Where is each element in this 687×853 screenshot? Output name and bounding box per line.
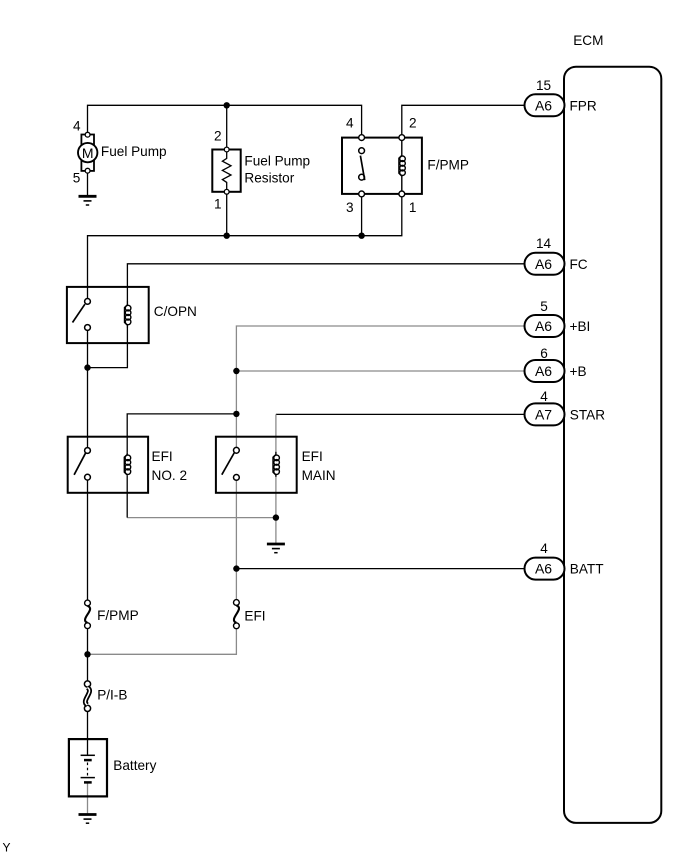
svg-text:M: M [82,145,94,161]
wire F/PMP relay pin3 branch down to mid net [361,194,363,236]
relay EFI NO.2 [68,437,148,493]
node junction dot below F/PMP fuse [84,651,90,657]
svg-text:A7: A7 [535,407,552,423]
wire +BI net gray: ECM A6-5 left then down to EFI MAIN switch top [236,326,524,450]
svg-text:BATT: BATT [570,562,604,577]
wire FC net: C/OPN coil top up and right to ECM A6-14 [127,264,524,301]
svg-text:Fuel Pump: Fuel Pump [244,153,310,168]
ground below EFI MAIN [267,544,285,553]
ground below battery [79,815,97,824]
motor fuel pump [78,132,97,173]
relay C/OPN [67,287,149,343]
wire BATT net: junction right to ECM A6-4 [236,568,524,570]
relay F/PMP [342,135,422,197]
svg-text:4: 4 [540,541,548,556]
svg-text:FPR: FPR [570,98,597,113]
svg-text:A6: A6 [535,97,552,113]
wire gray EFI MAIN switch bottom down to EFI fuse [235,477,237,602]
relay EFI MAIN [216,437,297,493]
svg-text:C/OPN: C/OPN [154,304,197,319]
svg-text:STAR: STAR [570,407,605,422]
wire C/OPN coil bottom hook left to switch-bottom net [88,327,128,367]
wire resistor pin1 branch down to mid net [226,192,228,236]
svg-text:MAIN: MAIN [302,468,336,483]
svg-text:A6: A6 [535,363,552,379]
pin A6-5 +BI [525,299,591,337]
wire top net: fuel pump pin4 up, right, down into F/PMP relay pin 4 [88,105,362,140]
svg-text:2: 2 [214,128,222,143]
svg-text:6: 6 [540,346,548,361]
wire FPR net: F/PMP relay pin2 up and right to ECM A6-15 [402,105,525,140]
pin A6-4 BATT [525,541,604,580]
wire EFI NO.2 switch bottom down to F/PMP fuse [87,477,89,603]
wire EFI NO.2 coil top up and right to +BI vertical [127,414,236,452]
fuse EFI [234,600,240,629]
svg-text:Resistor: Resistor [244,171,294,186]
wire gray EFI fuse bottom left to F/PMP fuse net [88,626,237,655]
wire P/I-B bottom down into battery [87,708,89,754]
svg-text:Battery: Battery [113,758,156,773]
ECM box [564,67,661,823]
node junction dot mid net at F/PMP pin3 [358,233,364,239]
svg-text:5: 5 [73,170,81,185]
svg-text:4: 4 [346,116,354,131]
svg-text:Fuel Pump: Fuel Pump [101,144,167,159]
ground below fuel pump [79,196,97,205]
wire F/PMP fuse bottom down to P/I-B link [87,626,89,685]
wire gray EFI MAIN coil top drop from STAR net [275,414,277,451]
wire STAR net: ECM A7-4 left to EFI MAIN coil column [276,413,525,415]
svg-text:F/PMP: F/PMP [97,608,139,623]
wire mid net y=235.7: C/OPN switch top to F/PMP relay pins 3 and 1 [88,194,402,302]
wire EFI NO.2 coil bottom drop black [126,476,128,518]
pin A6-6 +B [525,346,587,382]
svg-text:NO. 2: NO. 2 [152,468,188,483]
node junction dot EFI NO.2 coil net [233,411,239,417]
svg-text:A6: A6 [535,256,552,272]
svg-text:15: 15 [536,78,551,93]
fusible link P/I-B [84,681,90,712]
node junction dot BATT net [233,565,239,571]
svg-text:Y: Y [3,841,11,853]
wire gray battery negative to ground [87,783,89,813]
svg-text:ECM: ECM [573,33,603,48]
svg-text:+BI: +BI [570,319,591,334]
svg-text:A6: A6 [535,561,552,577]
pin A7-4 STAR [525,389,606,426]
node junction dot +B net [233,368,239,374]
node junction dot EFI MAIN coil ground net [273,514,279,520]
node junction dot top net at resistor [224,102,230,108]
fuse F/PMP [85,600,91,629]
node junction dot mid net at resistor [224,233,230,239]
svg-text:3: 3 [346,200,354,215]
wire gray EFI NO.2 coil bottom run right to EFI MAIN coil bottom [127,517,276,519]
svg-text:EFI: EFI [152,449,173,464]
svg-text:A6: A6 [535,318,552,334]
svg-text:14: 14 [536,236,552,251]
svg-text:EFI: EFI [244,608,265,623]
svg-text:P/I-B: P/I-B [97,688,127,703]
node junction dot below C/OPN [84,364,90,370]
svg-text:4: 4 [540,389,548,404]
svg-text:FC: FC [570,257,588,272]
wire fuel pump pin5 to ground [87,171,89,196]
svg-text:F/PMP: F/PMP [427,157,469,172]
battery [69,739,107,796]
svg-text:2: 2 [409,116,417,131]
svg-text:5: 5 [540,299,548,314]
svg-text:+B: +B [570,364,587,379]
svg-text:4: 4 [73,119,81,134]
wire C/OPN switch bottom down to EFI NO.2 switch top [87,328,89,451]
resistor Fuel Pump Resistor [212,147,240,194]
pin A6-14 FC [525,236,588,275]
svg-text:EFI: EFI [302,449,323,464]
pin A6-15 FPR [525,78,597,116]
wire resistor pin2 branch up to top net [226,105,228,149]
wire +B net gray: ECM A6-6 left to +BI vertical [236,370,524,372]
svg-text:1: 1 [214,196,222,211]
svg-text:1: 1 [409,200,417,215]
wire gray EFI MAIN coil bottom drop to ground [275,477,277,543]
